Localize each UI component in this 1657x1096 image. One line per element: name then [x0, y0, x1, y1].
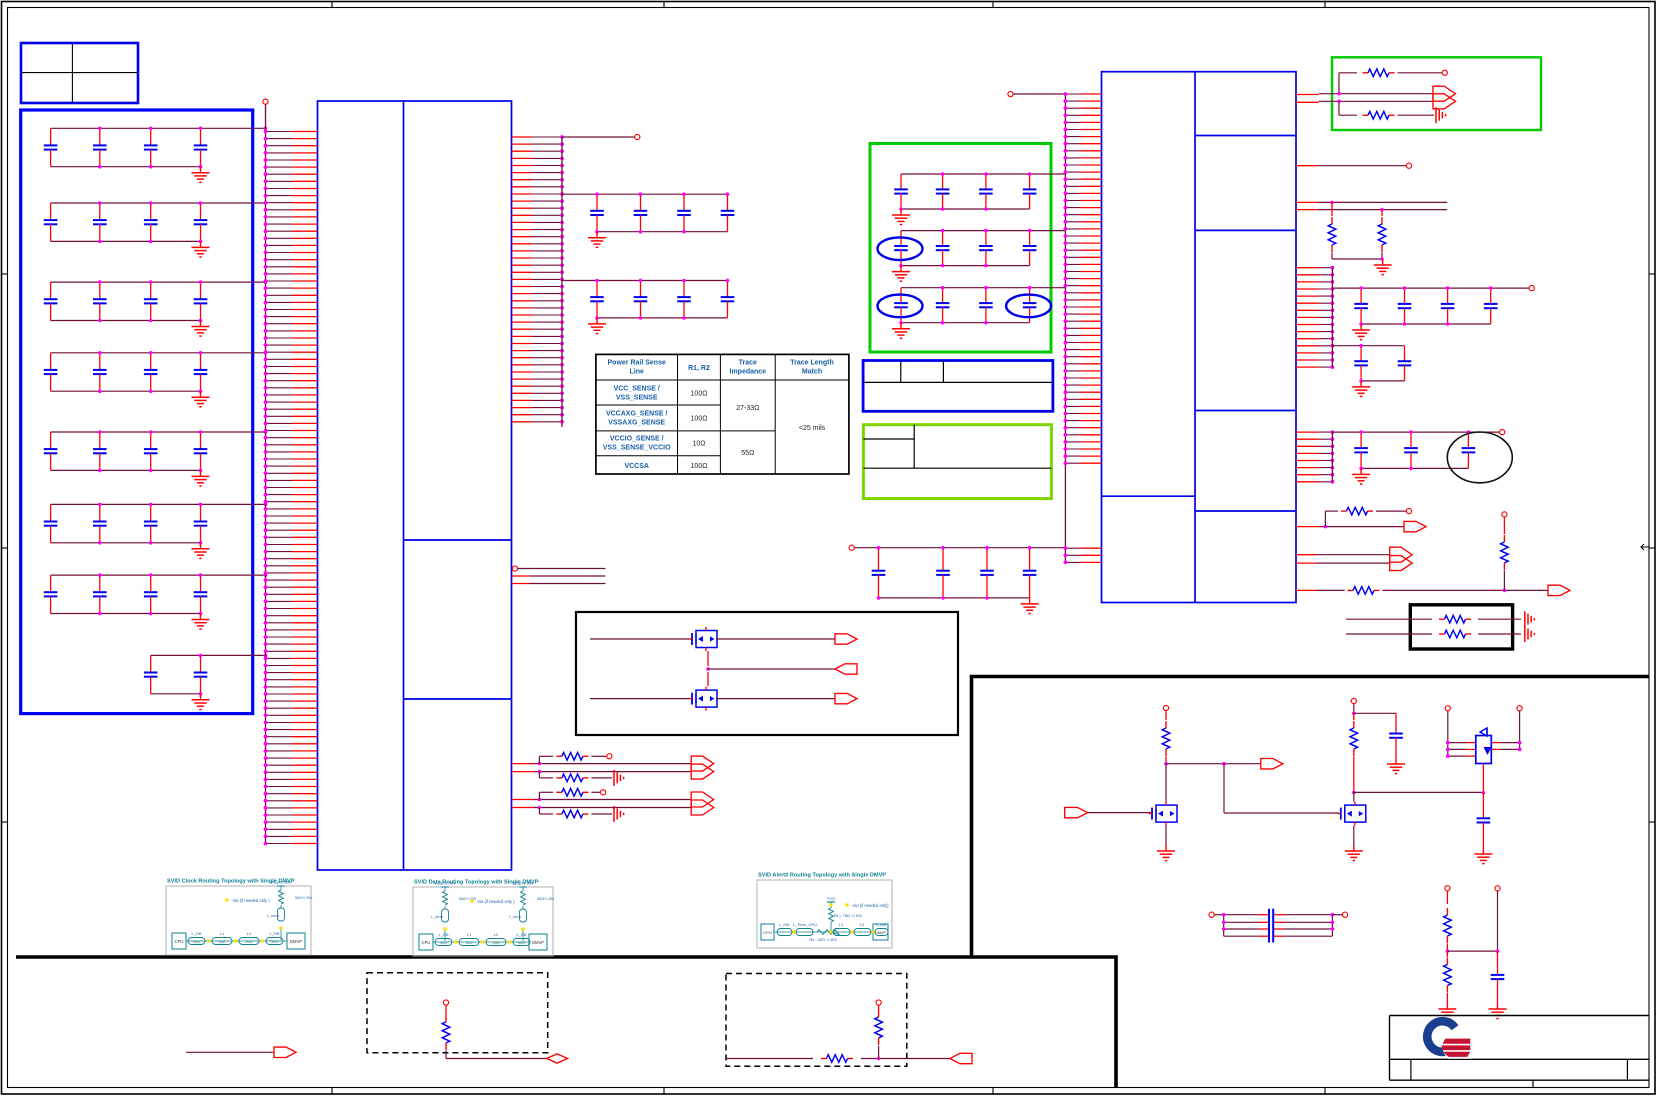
ground (cap bank row 5)	[192, 470, 210, 486]
svg-text:50Ω: 50Ω	[218, 940, 225, 944]
svg-text:50Ω+/-5%: 50Ω+/-5%	[537, 897, 555, 901]
pulldown resistors R1 R2 (U2 right)	[1296, 201, 1447, 261]
svg-text:- Via (if needed only ): - Via (if needed only )	[475, 899, 515, 904]
svg-text:100Ω: 100Ω	[691, 416, 708, 423]
svg-text:Rt = 75Ω +/-5%: Rt = 75Ω +/-5%	[834, 913, 862, 918]
double connector (U2 lower)	[1296, 547, 1412, 570]
svg-text:L_term: L_term	[267, 914, 279, 918]
ground (cap bank row 4)	[192, 391, 210, 407]
pullup resistor in dashed box 1	[442, 1000, 567, 1063]
dashed option box 1	[367, 973, 548, 1053]
svg-text:27-33Ω: 27-33Ω	[736, 405, 759, 412]
capacitor Cb	[1389, 713, 1403, 758]
svg-text:- Via (if needed only): - Via (if needed only)	[850, 903, 889, 908]
svg-text:VSS_SENSE: VSS_SENSE	[616, 395, 658, 402]
svg-text:DMVP: DMVP	[290, 939, 302, 944]
resistor network group 1 (U1 lower right) w/ connectors	[512, 753, 714, 786]
SVID clock routing info box	[166, 879, 313, 956]
termination R pair to grounds	[1346, 611, 1534, 642]
ground (bank U1-right 2)	[588, 318, 606, 334]
svg-text:R1, R2: R1, R2	[688, 365, 710, 372]
svg-text:Vccp: Vccp	[827, 896, 837, 901]
wire U2 right pins group A	[1296, 266, 1334, 369]
svg-text:CPU: CPU	[422, 940, 431, 945]
svg-text:Match: Match	[802, 369, 822, 376]
capacitor bank mid (VCCSA)	[849, 545, 1065, 600]
partition outline (thick black)	[16, 677, 1649, 1088]
svg-text:55Ω: 55Ω	[741, 450, 754, 457]
capacitor bank row 8	[144, 654, 267, 696]
highlight ellipse (black)	[1447, 432, 1512, 483]
wire stub group (U1 right mid)	[512, 566, 606, 584]
svg-text:50Ω: 50Ω	[271, 940, 278, 944]
node A wires + connector	[1164, 759, 1339, 814]
highlight ellipse cap A	[878, 237, 923, 260]
capacitor bank green-box row 1	[894, 172, 1065, 211]
capacitor array (4-line bus)	[1209, 909, 1348, 943]
dual diode pack D1	[1445, 706, 1522, 795]
wire to connector (bottom left)	[186, 1047, 296, 1057]
svg-text:DMVP: DMVP	[532, 940, 544, 945]
ground (U2 bank 2)	[1352, 381, 1370, 397]
capacitor bank row 7	[44, 573, 268, 615]
svg-text:VCC_SENSE /: VCC_SENSE /	[614, 386, 660, 393]
ground (cap bank row 7)	[192, 614, 210, 630]
svg-text:Vccp=1.05V: Vccp=1.05V	[434, 881, 456, 886]
ground (Q3)	[1157, 845, 1175, 861]
wire U1 right pins (top group)	[512, 135, 564, 424]
svg-text:DMVP: DMVP	[875, 931, 886, 935]
svg-text:Vccp=1.05V: Vccp=1.05V	[270, 880, 292, 885]
node left pin bus (U1 left)	[263, 99, 268, 845]
highlight ellipse cap B	[878, 295, 923, 318]
ground (cap bank row 3)	[192, 321, 210, 337]
svg-text:L1: L1	[220, 931, 225, 936]
node Q1-Q2 link + connector	[706, 664, 857, 686]
capacitor bank row 5	[44, 430, 268, 472]
note table (yellow-green)	[863, 425, 1051, 499]
svg-text:50Ω: 50Ω	[193, 940, 200, 944]
wire U2 left pins	[1064, 92, 1102, 564]
ground (green-box row 3)	[892, 323, 910, 339]
ground (Q4)	[1345, 845, 1363, 861]
highlight box (green) cap banks	[870, 144, 1051, 353]
svg-text:10Ω: 10Ω	[692, 441, 705, 448]
capacitor bank U2-right 2	[1332, 344, 1411, 383]
capacitor bank green-box row 3	[894, 286, 1065, 325]
svg-text:L_DB: L_DB	[438, 932, 448, 937]
svg-text:50Ω: 50Ω	[492, 941, 499, 945]
ground (Cdiv)	[1489, 1003, 1507, 1019]
svg-text:50Ω: 50Ω	[245, 940, 252, 944]
capacitor bank U2-right 1	[1332, 286, 1534, 326]
svg-text:L2: L2	[860, 922, 865, 927]
svg-text:VCCAXG_SENSE /: VCCAXG_SENSE /	[606, 411, 668, 418]
svg-text:L_DB: L_DB	[269, 931, 279, 936]
highlight box (green) termination	[1332, 57, 1541, 130]
capacitor bank row 1	[44, 127, 268, 169]
svg-text:50Ω: 50Ω	[465, 941, 472, 945]
ground (green-box row 1)	[892, 209, 910, 225]
note table (blue)	[863, 361, 1053, 412]
wire U1 left pins	[264, 130, 318, 846]
ground (cap bank row 6)	[192, 543, 210, 559]
svg-text:Rs : 40Ω +/-5%: Rs : 40Ω +/-5%	[809, 937, 837, 942]
svg-text:Impedance: Impedance	[730, 369, 767, 376]
svg-text:Line: Line	[630, 369, 644, 376]
svg-text:<25 mils: <25 mils	[799, 425, 826, 432]
ground (cap bank row 8)	[192, 694, 210, 710]
SVID data routing info box	[413, 880, 555, 957]
svg-text:L_term: L_term	[431, 915, 443, 919]
title block	[1390, 1016, 1650, 1088]
IC U2 (right block)	[1102, 72, 1297, 603]
svg-text:L1: L1	[467, 932, 472, 937]
transistor Q2	[590, 687, 857, 711]
wire Q1 output to connector	[708, 634, 857, 666]
svg-text:50Ω: 50Ω	[518, 941, 525, 945]
svg-text:L_DB: L_DB	[876, 922, 886, 927]
SVID alert routing info box	[757, 873, 892, 949]
ground (bank U1-right 1)	[588, 232, 606, 248]
ground (cap bank row 1)	[192, 167, 210, 183]
pullup resistor Ra	[1162, 705, 1170, 763]
transistor Q3	[1065, 764, 1177, 845]
svg-text:L_DB: L_DB	[191, 931, 201, 936]
resistor network group 2 (U1 lower right) w/ connectors	[512, 789, 714, 823]
capacitor bank U1-right 2	[562, 279, 734, 320]
svg-text:100Ω: 100Ω	[691, 463, 708, 470]
wire U2 pin to terminal (single)	[1296, 163, 1412, 168]
series resistor long net + pullup	[1296, 512, 1570, 596]
ground (cap bank row 2)	[192, 241, 210, 257]
svg-text:L_term: L_term	[509, 915, 521, 919]
company logo	[1427, 1021, 1470, 1057]
node collector (U1 right)	[561, 137, 563, 427]
transistor Q1	[590, 627, 717, 651]
svg-text:Vccp=1.05V: Vccp=1.05V	[512, 881, 534, 886]
decoupling capacitor area box	[21, 110, 253, 714]
dashed option box 2	[726, 974, 907, 1067]
svg-text:50Ω+/-5%: 50Ω+/-5%	[295, 896, 313, 900]
capacitor bank row 6	[44, 503, 268, 545]
wire U2 pins to double connector	[1296, 86, 1456, 109]
capacitor bank green-box row 2	[894, 229, 1065, 268]
svg-text:CPU: CPU	[763, 930, 772, 935]
capacitor bank row 3	[44, 280, 268, 322]
svg-text:L_Term_CPU: L_Term_CPU	[793, 922, 817, 927]
wire sense line to terminal	[562, 134, 640, 139]
svg-text:L2: L2	[494, 932, 499, 937]
pullup resistor Rb + node	[1350, 698, 1483, 794]
capacitor bank row 2	[44, 201, 268, 243]
highlight ellipse cap C	[1006, 295, 1051, 318]
svg-text:SVID Alert# Routing Topology w: SVID Alert# Routing Topology with Single…	[758, 873, 886, 879]
ground (Cb)	[1387, 758, 1405, 774]
resistor network U2 lower (w/ connector)	[1296, 507, 1426, 532]
svg-text:100Ω: 100Ω	[691, 391, 708, 398]
svg-text:Trace Length: Trace Length	[790, 360, 834, 367]
resistor R-top + terminal	[1339, 69, 1447, 94]
ground (mid cap bank)	[1021, 598, 1039, 614]
IC U1 (left large block)	[318, 101, 512, 870]
svg-text:VSSAXG_SENSE: VSSAXG_SENSE	[608, 420, 665, 427]
svg-text:Trace: Trace	[739, 360, 757, 367]
capacitor bank U1-right 1	[562, 192, 734, 233]
capacitor bank U2-right 3	[1332, 430, 1504, 471]
revision table (top-left)	[21, 43, 138, 103]
highlight box (black small) termination resistors	[1410, 605, 1512, 649]
ground (Cd)	[1474, 848, 1492, 864]
svg-text:L2: L2	[247, 931, 252, 936]
svg-text:VCCSA: VCCSA	[624, 463, 649, 470]
svg-text:Power Rail Sense: Power Rail Sense	[608, 360, 666, 367]
capacitor bank row 4	[44, 351, 268, 393]
svg-text:L_DB: L_DB	[516, 932, 526, 937]
resistor R-bottom + ground	[1339, 101, 1446, 123]
svg-text:VCCIO_SENSE /: VCCIO_SENSE /	[610, 436, 664, 443]
svg-text:VSS_SENSE_VCCIO: VSS_SENSE_VCCIO	[603, 445, 671, 452]
svg-text:L_DB: L_DB	[779, 922, 789, 927]
svg-text:L1: L1	[839, 922, 844, 927]
wire U2 right pins group B	[1296, 430, 1334, 483]
divider resistors Rd1 Rd2 + cap	[1444, 886, 1505, 1003]
ground (pulldown pair)	[1374, 259, 1392, 275]
ground (Rd2)	[1438, 1003, 1456, 1019]
node left pin bus (U2)	[1008, 91, 1066, 562]
svg-text:CPU: CPU	[175, 939, 184, 944]
ground (green-box row 2)	[892, 266, 910, 282]
power rail sense table	[596, 354, 849, 474]
capacitor Cd	[1477, 793, 1491, 848]
svg-text:50Ω: 50Ω	[440, 941, 447, 945]
series resistor + pullup in dashed box 2	[726, 1000, 972, 1064]
ground (U2 bank 1)	[1352, 324, 1370, 340]
transistor Q4	[1338, 792, 1366, 845]
highlight box (black) FET switches	[576, 612, 958, 735]
svg-text:- Via (if needed only ): - Via (if needed only )	[230, 898, 270, 903]
ground (U2 bank 3)	[1352, 468, 1370, 484]
